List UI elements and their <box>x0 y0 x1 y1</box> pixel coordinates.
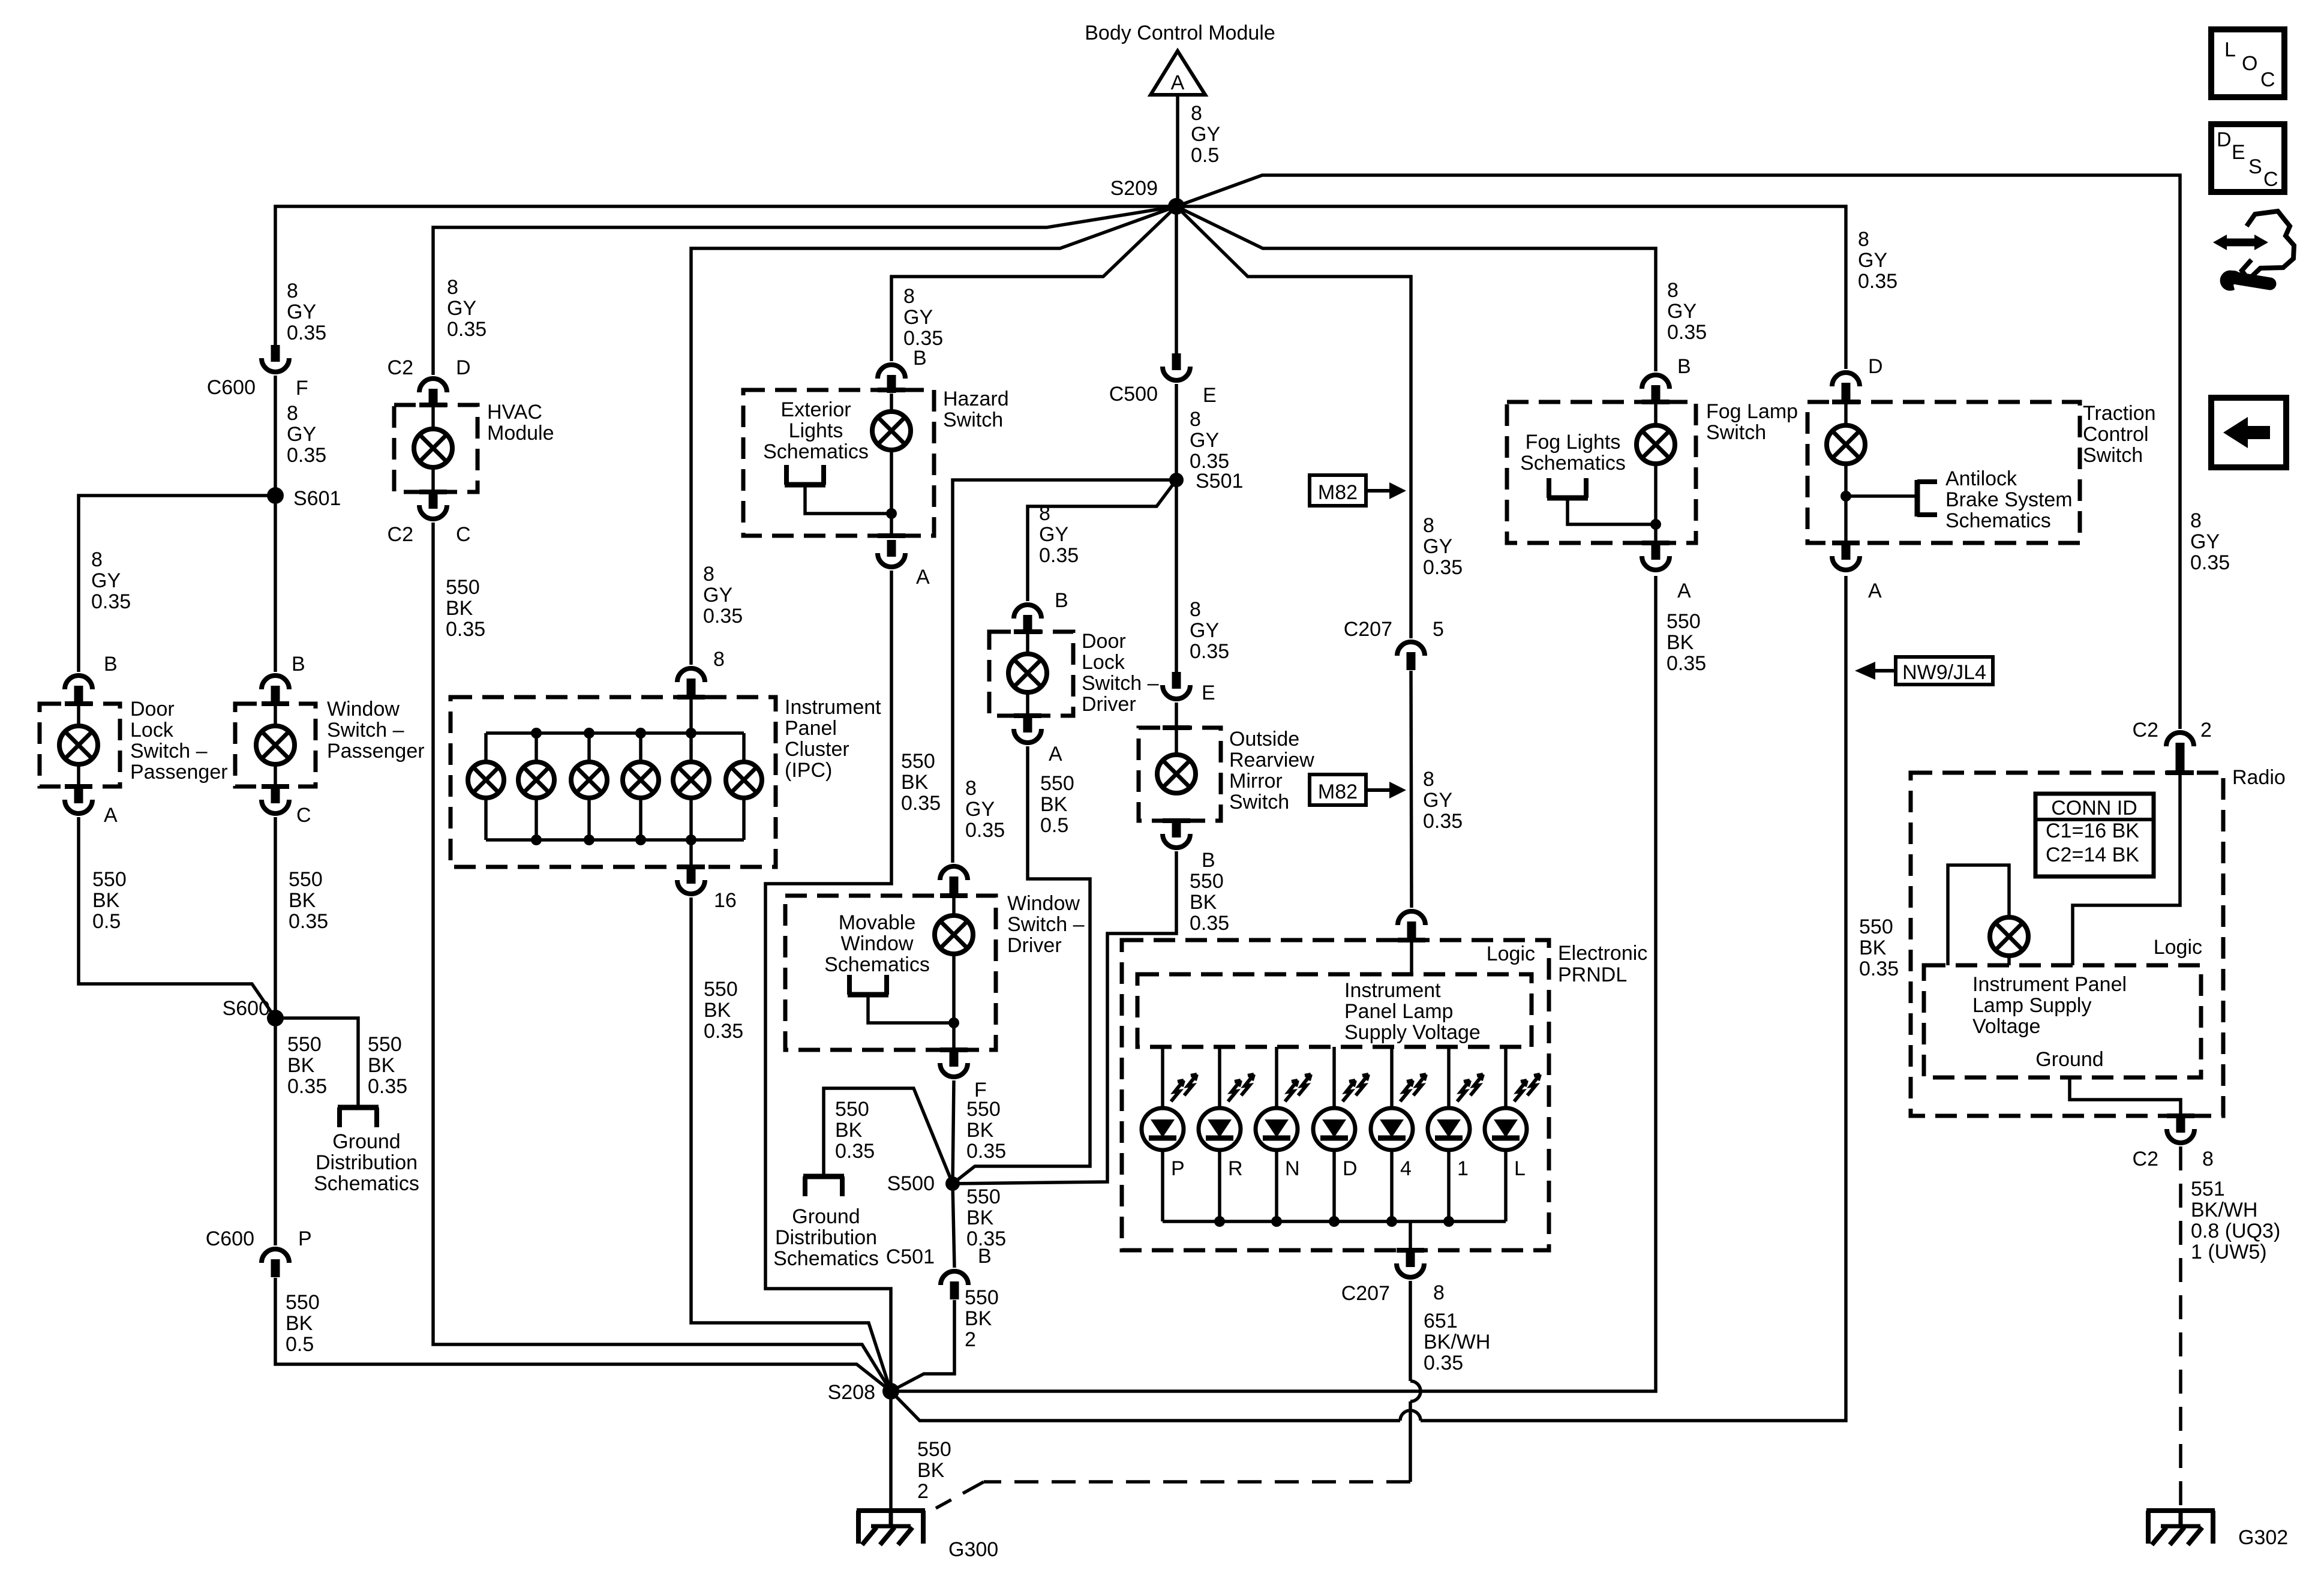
svg-text:L: L <box>2224 38 2236 61</box>
reference box NW9/JL4 with arrow <box>1896 657 1993 685</box>
LED N (PRNDL) <box>1256 1108 1298 1150</box>
off-page fork Fog Lights Schematics <box>1547 496 1588 501</box>
component box Traction Control Switch <box>1807 402 2080 543</box>
svg-text:0.8 (UQ3): 0.8 (UQ3) <box>2191 1220 2280 1242</box>
wire S501 to Window Switch Driver B <box>953 480 1176 863</box>
svg-text:Cluster: Cluster <box>785 738 849 761</box>
junction <box>686 834 696 845</box>
svg-text:GY: GY <box>1858 249 1887 272</box>
svg-text:C: C <box>2260 68 2275 91</box>
lamp Door Lock Switch - Passenger <box>59 726 98 764</box>
svg-text:8: 8 <box>1190 408 1201 431</box>
svg-text:0.5: 0.5 <box>1040 814 1068 837</box>
svg-text:Schematics: Schematics <box>763 440 869 463</box>
svg-text:Voltage: Voltage <box>1972 1015 2040 1038</box>
svg-text:D: D <box>1343 1157 1358 1180</box>
svg-text:0.5: 0.5 <box>92 910 121 933</box>
connector A (Traction Control Switch) <box>1842 543 1851 560</box>
icon wrench/vehicle (service) <box>2242 211 2294 280</box>
off-page connector triangle A (Body Control Module) <box>1151 51 1205 95</box>
dashed wire C2-8 to G302 <box>2179 1146 2182 1511</box>
svg-text:2: 2 <box>965 1328 976 1351</box>
junction <box>584 728 594 739</box>
component box Instrument Panel Cluster <box>451 697 776 867</box>
svg-text:8: 8 <box>1423 514 1434 537</box>
wire C207-8 down with hop over S208 wire <box>1409 1281 1412 1381</box>
connector B (Outside Rearview Mirror Switch) <box>1172 821 1181 837</box>
connector F (Window Switch Driver) <box>950 1050 959 1067</box>
svg-text:G300: G300 <box>948 1538 998 1561</box>
svg-text:8: 8 <box>2202 1148 2214 1170</box>
wire S209 to HVAC C2-D column <box>433 206 1176 375</box>
svg-text:C500: C500 <box>1109 383 1158 406</box>
connector C501 pin B <box>941 1271 968 1285</box>
svg-text:Ground: Ground <box>332 1130 400 1153</box>
ground G300 <box>857 1508 925 1513</box>
junction <box>635 834 646 845</box>
svg-text:Body Control Module: Body Control Module <box>1085 22 1275 44</box>
svg-text:8: 8 <box>287 402 298 425</box>
connector A (Fog Lamp Switch) <box>1652 543 1661 560</box>
junction <box>1386 1216 1397 1227</box>
svg-text:GY: GY <box>1423 789 1452 812</box>
svg-text:BK: BK <box>1190 891 1217 914</box>
icon box back-arrow <box>2211 398 2286 467</box>
lamp Fog Lamp Switch <box>1637 425 1675 464</box>
wire C501-B to S208 <box>891 1300 954 1391</box>
connector A (Door Lock Switch Passenger) <box>74 786 83 803</box>
component box Window Switch - Passenger <box>235 704 316 786</box>
svg-text:0.35: 0.35 <box>1667 321 1707 344</box>
svg-text:S601: S601 <box>293 487 341 510</box>
connector A (Hazard Switch) <box>887 540 896 557</box>
lamp IPC 6 <box>726 762 762 798</box>
svg-text:0.35: 0.35 <box>704 1020 743 1043</box>
inner box Radio Logic <box>1924 965 2201 1077</box>
svg-text:C600: C600 <box>207 376 256 399</box>
svg-text:Schematics: Schematics <box>1945 509 2051 532</box>
svg-text:Antilock: Antilock <box>1945 467 2017 490</box>
svg-text:B: B <box>292 653 305 676</box>
wire to ABS fork <box>1846 494 1917 498</box>
svg-text:Mirror: Mirror <box>1229 770 1283 792</box>
svg-text:NW9/JL4: NW9/JL4 <box>1902 661 1986 684</box>
svg-text:BK: BK <box>1667 631 1694 654</box>
svg-text:GY: GY <box>1039 523 1068 546</box>
svg-text:0.35: 0.35 <box>1859 957 1899 980</box>
svg-text:O: O <box>2242 52 2257 75</box>
svg-text:G302: G302 <box>2238 1526 2288 1549</box>
svg-text:Movable: Movable <box>839 911 916 934</box>
svg-text:0.35: 0.35 <box>287 444 326 467</box>
lamp Window Switch - Driver <box>935 915 973 954</box>
LED 4 (PRNDL) <box>1371 1108 1413 1150</box>
svg-text:BK: BK <box>917 1459 945 1482</box>
svg-text:BK: BK <box>1040 793 1068 816</box>
svg-text:Instrument Panel: Instrument Panel <box>1972 973 2127 996</box>
svg-text:Schematics: Schematics <box>1520 452 1626 475</box>
svg-text:Switch: Switch <box>2083 444 2143 467</box>
svg-text:550: 550 <box>1040 772 1074 795</box>
svg-text:S600: S600 <box>223 997 270 1020</box>
wire S501 to Door Lock Driver B <box>1028 480 1176 601</box>
svg-text:Traction: Traction <box>2083 402 2156 425</box>
svg-text:Lights: Lights <box>789 419 843 442</box>
junction <box>531 834 542 845</box>
lamp Traction Control Switch <box>1827 425 1865 464</box>
svg-text:0.35: 0.35 <box>91 590 131 613</box>
connector pin 8 (IPC) <box>677 668 705 682</box>
svg-text:GY: GY <box>1191 123 1220 146</box>
wire radio ground out <box>2070 1077 2181 1116</box>
svg-text:E: E <box>1202 682 1215 704</box>
lamp Hazard Switch <box>872 412 911 450</box>
svg-text:Ground: Ground <box>792 1205 860 1228</box>
svg-text:Fog Lamp: Fog Lamp <box>1706 400 1798 423</box>
svg-text:Control: Control <box>2083 423 2149 446</box>
svg-text:CONN ID: CONN ID <box>2051 797 2137 819</box>
wire DLP-A to S600 <box>79 817 275 1018</box>
svg-text:0.5: 0.5 <box>286 1333 314 1356</box>
wire Hazard-A to S208 <box>765 571 891 1391</box>
svg-text:0.35: 0.35 <box>1039 544 1079 567</box>
off-page fork Antilock Brake System Schematics <box>1915 480 1920 517</box>
svg-text:8: 8 <box>1423 768 1434 791</box>
lamp Window Switch - Passenger <box>256 726 295 764</box>
connector B (Window Switch Driver) <box>940 866 968 880</box>
svg-text:8: 8 <box>91 548 103 571</box>
wire S601 left to Door Lock Switch Passenger B <box>79 496 275 672</box>
wire LED 4 <box>1390 1047 1394 1108</box>
svg-text:Instrument: Instrument <box>1344 979 1441 1002</box>
svg-text:A: A <box>1049 743 1062 766</box>
svg-text:Switch –: Switch – <box>1007 913 1085 936</box>
wire IPC-16 to S208 <box>691 897 891 1391</box>
svg-text:Logic: Logic <box>2154 936 2202 959</box>
svg-text:Switch –: Switch – <box>1082 672 1159 695</box>
svg-text:Switch –: Switch – <box>130 740 208 763</box>
connector B (Door Lock Switch Driver) <box>1014 605 1041 619</box>
svg-text:550: 550 <box>917 1438 951 1461</box>
wire LED P <box>1161 1047 1164 1108</box>
svg-text:550: 550 <box>704 978 738 1001</box>
lamp IPC 4 <box>623 762 659 798</box>
wire fork to WSD lamp wire <box>868 995 954 1023</box>
svg-text:E: E <box>1203 384 1217 407</box>
svg-text:550: 550 <box>966 1185 1001 1208</box>
lamp IPC 1 <box>468 762 504 798</box>
wire S500 to C501-B <box>953 1184 954 1268</box>
svg-text:C: C <box>296 804 311 827</box>
component box Window Switch Driver / Movable Window <box>785 896 996 1050</box>
svg-text:C: C <box>2263 168 2278 191</box>
reference box M82 <box>1310 475 1366 506</box>
svg-text:0.35: 0.35 <box>1423 556 1463 579</box>
svg-text:GY: GY <box>287 423 316 446</box>
dashed wire to G300 <box>984 1480 1410 1484</box>
svg-text:C600: C600 <box>206 1227 254 1250</box>
svg-text:551: 551 <box>2191 1178 2225 1200</box>
svg-text:Panel: Panel <box>785 717 837 740</box>
wire bus to C207-8 <box>1409 1221 1412 1250</box>
svg-text:S501: S501 <box>1196 470 1243 493</box>
svg-text:Electronic: Electronic <box>1558 942 1647 965</box>
svg-text:0.35: 0.35 <box>966 1140 1006 1163</box>
lamp IPC 3 <box>571 762 607 798</box>
svg-text:GY: GY <box>903 306 933 329</box>
svg-text:BK: BK <box>704 999 731 1022</box>
svg-text:B: B <box>978 1245 992 1268</box>
wire S208 right to Fog Lamp A column <box>891 576 1656 1391</box>
PRNDL LED ground bus <box>1163 1220 1506 1223</box>
svg-text:BK: BK <box>965 1307 992 1330</box>
svg-text:0.35: 0.35 <box>1190 640 1229 663</box>
svg-text:8: 8 <box>713 648 725 671</box>
svg-text:550: 550 <box>966 1098 1001 1121</box>
svg-text:8: 8 <box>903 285 915 308</box>
svg-text:8: 8 <box>1433 1281 1445 1304</box>
junction <box>886 508 897 519</box>
svg-text:Window: Window <box>841 932 914 955</box>
component box Radio <box>1911 773 2223 1116</box>
wire S601 down to Window Switch Passenger B <box>274 496 277 672</box>
svg-text:Hazard: Hazard <box>943 388 1009 410</box>
connector B (Door Lock Switch Passenger) <box>65 676 92 689</box>
svg-text:GY: GY <box>2190 530 2220 553</box>
wire S209 to Radio C2-2 column <box>1176 175 2180 729</box>
svg-text:Schematics: Schematics <box>773 1247 879 1270</box>
lamp IPC 5 <box>673 762 709 798</box>
svg-text:Fog Lights: Fog Lights <box>1526 431 1621 454</box>
svg-text:0.35: 0.35 <box>368 1075 407 1098</box>
svg-text:M82: M82 <box>1318 781 1358 803</box>
svg-text:651: 651 <box>1424 1310 1458 1332</box>
svg-text:0.35: 0.35 <box>1858 270 1897 293</box>
svg-text:550: 550 <box>92 868 127 891</box>
svg-text:B: B <box>1202 849 1215 872</box>
component box HVAC Module <box>394 405 478 492</box>
svg-text:N: N <box>1285 1157 1300 1180</box>
svg-text:0.35: 0.35 <box>703 605 743 628</box>
svg-text:Brake System: Brake System <box>1945 488 2073 511</box>
svg-text:8: 8 <box>2190 509 2202 532</box>
wire S209 to C207-5 column <box>1176 206 1411 638</box>
svg-text:0.35: 0.35 <box>287 322 326 344</box>
svg-text:C1=16 BK: C1=16 BK <box>2046 819 2139 842</box>
junction <box>1650 519 1661 530</box>
wire fork to fog lamp wire <box>1568 498 1656 524</box>
svg-text:GY: GY <box>703 584 732 607</box>
svg-text:Window: Window <box>327 698 400 721</box>
svg-text:1: 1 <box>1457 1157 1469 1180</box>
svg-text:Door: Door <box>130 698 175 721</box>
wire S209 to Hazard-B column <box>891 206 1176 361</box>
svg-text:B: B <box>104 653 118 676</box>
lamp Door Lock Switch - Driver <box>1008 654 1047 692</box>
wire inside radio from C2-2 <box>2073 774 2180 965</box>
svg-text:C2=14 BK: C2=14 BK <box>2046 843 2139 866</box>
svg-text:GY: GY <box>447 297 476 320</box>
splice S500 <box>945 1176 960 1191</box>
svg-text:C207: C207 <box>1344 618 1392 641</box>
svg-text:D: D <box>1868 355 1883 378</box>
svg-text:BK: BK <box>901 771 929 794</box>
svg-text:C207: C207 <box>1341 1282 1390 1305</box>
svg-text:8: 8 <box>703 563 714 586</box>
svg-text:C501: C501 <box>886 1245 935 1268</box>
svg-text:BK: BK <box>92 889 120 912</box>
wire S208 down to G300 <box>889 1391 893 1511</box>
off-page fork Ground Distribution (S500) <box>803 1174 844 1179</box>
arrow M82 to wire <box>1366 788 1392 792</box>
wire S209 left y=344 to C600-F column <box>275 206 1176 345</box>
svg-text:Switch: Switch <box>1229 791 1289 813</box>
svg-text:0.35: 0.35 <box>1667 652 1706 675</box>
svg-text:0.35: 0.35 <box>835 1140 875 1163</box>
svg-text:5: 5 <box>1433 618 1444 641</box>
svg-text:C2: C2 <box>2133 719 2158 742</box>
svg-text:BK: BK <box>966 1119 994 1142</box>
wire C500-E to S501 <box>1175 384 1178 480</box>
connector C600 pin F <box>271 345 280 362</box>
wire C600-P to S208 <box>275 1278 891 1391</box>
wire S501 down to ORM-E <box>1175 480 1178 672</box>
svg-text:Radio: Radio <box>2232 766 2286 789</box>
svg-text:0.35: 0.35 <box>1424 1352 1463 1374</box>
splice S601 <box>267 487 284 504</box>
wire triangle-A to S209 <box>1176 95 1179 203</box>
LED 1 (PRNDL) <box>1428 1108 1470 1150</box>
svg-text:Switch –: Switch – <box>327 719 404 742</box>
svg-text:0.35: 0.35 <box>965 819 1005 842</box>
svg-text:BK: BK <box>1859 936 1887 959</box>
svg-text:GY: GY <box>1190 429 1219 452</box>
svg-text:0.35: 0.35 <box>289 910 328 933</box>
svg-text:GY: GY <box>965 798 995 821</box>
wire C207-5 to PRNDL <box>1411 671 1412 908</box>
svg-text:550: 550 <box>901 750 935 773</box>
icon box LOC <box>2211 29 2284 97</box>
svg-text:Instrument: Instrument <box>785 696 881 719</box>
component box Electronic PRNDL <box>1122 940 1549 1250</box>
junction <box>1214 1216 1225 1227</box>
svg-text:B: B <box>913 347 927 370</box>
connector C207 pin 5 <box>1397 642 1425 656</box>
junction <box>1443 1216 1454 1227</box>
svg-text:Outside: Outside <box>1229 728 1299 751</box>
svg-text:Supply Voltage: Supply Voltage <box>1344 1021 1481 1044</box>
component box Fog Lamp Switch <box>1507 402 1696 543</box>
connector C2 pin D (HVAC) <box>419 379 447 392</box>
svg-text:C2: C2 <box>388 356 413 379</box>
svg-text:Distribution: Distribution <box>775 1226 877 1249</box>
svg-text:16: 16 <box>714 889 737 912</box>
inner box Instrument Panel Lamp Supply Voltage <box>1137 974 1532 1047</box>
connector A (Door Lock Switch Driver) <box>1023 716 1032 733</box>
svg-text:550: 550 <box>287 1033 322 1056</box>
svg-text:0.5: 0.5 <box>1191 144 1219 167</box>
svg-text:D: D <box>456 356 471 379</box>
svg-text:(IPC): (IPC) <box>785 759 832 782</box>
connector (PRNDL supply) <box>1398 911 1425 925</box>
wire S209 to Fog Lamp B column <box>1176 206 1656 371</box>
svg-text:Lock: Lock <box>130 719 174 742</box>
junction <box>531 728 542 739</box>
wire S600 to Ground Distribution fork <box>275 1018 358 1107</box>
svg-text:GY: GY <box>1190 619 1219 642</box>
svg-text:R: R <box>1228 1157 1243 1180</box>
off-page fork Ground Distribution (S600) <box>338 1105 379 1110</box>
svg-text:BK: BK <box>446 597 473 620</box>
svg-text:8: 8 <box>965 777 977 800</box>
svg-text:550: 550 <box>286 1291 320 1314</box>
off-page fork Exterior Lights Schematics <box>785 482 825 488</box>
arrow M82 to wire <box>1366 489 1392 493</box>
connector C500 pin E <box>1172 353 1181 370</box>
svg-text:F: F <box>296 377 308 400</box>
svg-text:Distribution: Distribution <box>316 1151 418 1174</box>
svg-text:BK: BK <box>966 1206 994 1229</box>
wire LED L <box>1504 1047 1508 1108</box>
svg-text:2: 2 <box>2200 719 2212 742</box>
connector E (Outside Rearview Mirror Switch) <box>1172 672 1181 689</box>
connector B (Window Switch Passenger) <box>262 676 289 689</box>
svg-text:8: 8 <box>1039 502 1050 525</box>
svg-text:P: P <box>298 1227 312 1250</box>
radio lamp loop <box>1948 865 2009 965</box>
svg-text:L: L <box>1514 1157 1526 1180</box>
IPC internal lamp bus bottom <box>486 838 744 842</box>
connector pin 16 (IPC) <box>687 867 696 884</box>
svg-text:8: 8 <box>1858 228 1869 251</box>
svg-text:GY: GY <box>287 301 316 323</box>
svg-text:Switch: Switch <box>1706 421 1766 444</box>
svg-text:Lamp Supply: Lamp Supply <box>1972 994 2091 1017</box>
svg-text:S: S <box>2248 155 2262 178</box>
wire WSP-C to S600 <box>274 817 277 1018</box>
svg-text:GY: GY <box>1667 300 1697 323</box>
wire S208 to Traction Control A column (with hop) <box>891 1391 1400 1421</box>
svg-text:Window: Window <box>1007 892 1080 915</box>
off-page fork Movable Window Schematics <box>848 992 888 998</box>
svg-text:550: 550 <box>835 1098 869 1121</box>
junction <box>1271 1216 1282 1227</box>
connector B (Fog Lamp Switch) <box>1642 375 1670 389</box>
wire HVAC-C to S208 <box>433 523 891 1391</box>
svg-text:S500: S500 <box>887 1172 935 1195</box>
connector C (Window Switch Passenger) <box>271 786 280 803</box>
wire LED N <box>1275 1047 1278 1108</box>
svg-text:Switch: Switch <box>943 409 1003 431</box>
connector C207 pin 8 <box>1406 1250 1415 1267</box>
connector C2 pin 8 (Radio) <box>2176 1116 2185 1133</box>
svg-text:0.35: 0.35 <box>287 1075 327 1098</box>
svg-text:0.35: 0.35 <box>447 318 487 341</box>
LED R (PRNDL) <box>1199 1108 1241 1150</box>
junction <box>635 728 646 739</box>
svg-text:8: 8 <box>1190 598 1201 621</box>
svg-text:0.35: 0.35 <box>901 792 941 815</box>
svg-text:2: 2 <box>917 1480 929 1503</box>
splice S209 <box>1168 198 1185 215</box>
ground G302 <box>2146 1508 2215 1513</box>
svg-text:8: 8 <box>447 276 458 299</box>
svg-text:D: D <box>2217 128 2232 151</box>
svg-text:Door: Door <box>1082 630 1126 653</box>
svg-text:Driver: Driver <box>1082 693 1136 716</box>
LED P (PRNDL) <box>1142 1108 1184 1150</box>
svg-text:Schematics: Schematics <box>314 1172 419 1195</box>
